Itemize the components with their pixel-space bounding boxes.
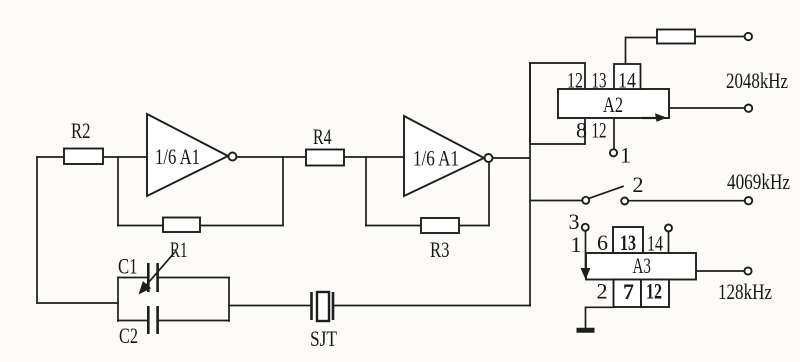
wire feedback 2 vertical bbox=[488, 160, 490, 226]
svg-text:14: 14 bbox=[647, 231, 663, 256]
wire box to crystal bbox=[229, 305, 310, 307]
svg-text:8: 8 bbox=[576, 118, 587, 143]
svg-text:1/6 A1: 1/6 A1 bbox=[413, 146, 459, 171]
svg-text:1: 1 bbox=[620, 143, 631, 168]
wire rail to R2 bbox=[37, 156, 64, 158]
IC A2 bbox=[558, 89, 669, 118]
resistor top right bbox=[657, 30, 695, 44]
svg-text:1/6 A1: 1/6 A1 bbox=[155, 144, 200, 169]
switch blade bbox=[589, 186, 623, 198]
wire resistor to terminal bbox=[695, 36, 745, 38]
wire A3 output bbox=[696, 270, 745, 272]
terminal 128kHz bbox=[744, 267, 751, 274]
wire R4 to U1b input bbox=[344, 156, 404, 158]
svg-text:13: 13 bbox=[620, 230, 636, 255]
arrow on A2 output bbox=[642, 117, 658, 119]
pin 14 box A2 bbox=[614, 64, 641, 89]
wire feedback 1 horizontal bbox=[118, 225, 283, 227]
wire pin14 up bbox=[626, 38, 658, 65]
wire pin 2 to ground bbox=[586, 307, 614, 327]
wire feedback 1 vertical bbox=[282, 157, 284, 226]
wire pin 14 up to terminal bbox=[668, 232, 670, 254]
svg-text:R4: R4 bbox=[313, 124, 332, 149]
capacitor C1 variable arrow bbox=[145, 253, 175, 287]
inverter U1b 1/6 A1 bbox=[404, 116, 484, 196]
switch contact 3 bbox=[582, 224, 589, 231]
wire A2 pin12 down to switch contact 1 bbox=[613, 119, 615, 150]
svg-text:14: 14 bbox=[618, 68, 636, 93]
capacitor network box left edge bbox=[117, 278, 119, 322]
wire contact 2 to terminal bbox=[628, 200, 744, 202]
resistor R3 bbox=[421, 218, 459, 233]
svg-text:R2: R2 bbox=[71, 118, 91, 143]
wire R2 to U1 input bbox=[103, 156, 147, 158]
svg-text:3: 3 bbox=[569, 209, 580, 234]
switch pole bbox=[582, 197, 589, 204]
svg-text:2048kHz: 2048kHz bbox=[726, 68, 788, 93]
pin 7 box A3 bbox=[614, 280, 642, 308]
svg-text:7: 7 bbox=[623, 279, 634, 304]
pin 13 box A3 bbox=[613, 227, 643, 253]
resistor R2 bbox=[64, 149, 103, 165]
svg-text:C2: C2 bbox=[119, 323, 138, 348]
wire node down to feedback 2 bbox=[365, 157, 367, 226]
wire feedback 2 horizontal bbox=[366, 225, 489, 227]
resistor R4 bbox=[306, 150, 344, 166]
capacitor network box right edge bbox=[228, 278, 230, 322]
open terminal above pin 14 bbox=[665, 225, 672, 232]
wire A2 output bbox=[669, 107, 745, 109]
wire U1a out to R4 bbox=[237, 156, 307, 158]
wire rail to switch pole bbox=[530, 200, 582, 202]
wire box top segments bbox=[118, 277, 147, 279]
capacitor C2 plates bbox=[147, 306, 150, 334]
switch contact 1 bbox=[610, 149, 617, 156]
svg-text:C1: C1 bbox=[118, 254, 138, 279]
svg-text:12: 12 bbox=[567, 68, 583, 93]
inverter U1a 1/6 A1 bbox=[147, 114, 228, 196]
IC A3 bbox=[586, 253, 696, 280]
svg-text:6: 6 bbox=[597, 230, 608, 255]
svg-text:A2: A2 bbox=[603, 92, 623, 117]
svg-text:13: 13 bbox=[592, 68, 607, 93]
output bubble U1a bbox=[229, 153, 237, 161]
terminal top bbox=[745, 33, 752, 40]
wire left rail vertical bbox=[36, 157, 38, 303]
svg-text:R1: R1 bbox=[170, 237, 188, 262]
wire input node down bbox=[117, 157, 119, 226]
ground bbox=[577, 328, 595, 333]
svg-text:R3: R3 bbox=[430, 237, 450, 262]
terminal 2048kHz bbox=[745, 105, 752, 112]
wire crystal to rail bbox=[335, 305, 531, 307]
svg-text:128kHz: 128kHz bbox=[718, 279, 772, 304]
wire loop pins 12-8 of A2 bbox=[530, 63, 585, 144]
output bubble U1b bbox=[485, 154, 493, 162]
svg-text:12: 12 bbox=[592, 118, 607, 143]
terminal 4069kHz bbox=[745, 197, 752, 204]
crystal SJT left plate bbox=[310, 292, 313, 320]
pin 12 box A3 bbox=[641, 280, 669, 308]
svg-text:2: 2 bbox=[633, 172, 644, 197]
wire rail bottom to box bbox=[37, 302, 118, 304]
svg-text:SJT: SJT bbox=[310, 326, 337, 351]
capacitor C1 plates bbox=[147, 263, 150, 292]
wire U1b out to rail bbox=[493, 157, 531, 159]
wire right rail vertical bbox=[529, 63, 531, 306]
svg-text:A3: A3 bbox=[633, 253, 652, 278]
resistor R1 bbox=[163, 218, 200, 233]
wire box bottom segments bbox=[118, 320, 147, 322]
crystal SJT body bbox=[317, 292, 329, 321]
svg-text:12: 12 bbox=[646, 279, 662, 304]
switch contact 2 bbox=[621, 198, 628, 205]
svg-text:1: 1 bbox=[571, 232, 582, 257]
crystal SJT right plate bbox=[332, 292, 335, 320]
wire contact 3 down to A3 pin 1 with arrow bbox=[585, 231, 587, 271]
svg-text:2: 2 bbox=[597, 279, 608, 304]
svg-text:4069kHz: 4069kHz bbox=[727, 169, 790, 194]
